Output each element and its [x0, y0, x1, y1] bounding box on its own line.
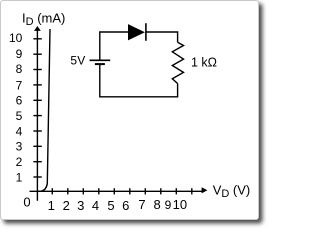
- svg-text:4: 4: [92, 198, 99, 213]
- battery V1 positive long plate: [90, 59, 111, 61]
- svg-text:5: 5: [107, 198, 114, 213]
- diode D1 cathode bar: [145, 23, 147, 41]
- y tick 4: [33, 130, 41, 132]
- svg-text:1: 1: [48, 198, 55, 213]
- y-axis arrowhead: [34, 26, 41, 31]
- svg-text:1: 1: [16, 170, 23, 184]
- battery V1 negative short plate: [95, 63, 105, 65]
- y tick 7: [33, 84, 41, 86]
- x tick 1: [51, 188, 53, 194]
- svg-text:ID (mA): ID (mA): [22, 10, 65, 28]
- y tick 10: [33, 38, 41, 40]
- diode I-V curve: [38, 29, 50, 191]
- y tick 2: [33, 161, 41, 163]
- wire: bottom from battery to resistor: [100, 65, 178, 97]
- y tick 5: [33, 115, 41, 117]
- x tick 9: [175, 188, 177, 194]
- svg-text:5: 5: [16, 109, 23, 123]
- svg-text:3: 3: [77, 198, 84, 213]
- resistor R1 zigzag: [172, 42, 183, 83]
- diode D1 triangle: [128, 24, 145, 40]
- svg-text:4: 4: [16, 124, 23, 138]
- y tick 9: [33, 53, 41, 55]
- svg-text:1 kΩ: 1 kΩ: [191, 55, 217, 69]
- x tick 3: [82, 188, 84, 194]
- x tick 10: [191, 188, 193, 194]
- wire: diode to top-right corner down to resistor: [147, 32, 178, 42]
- wire: top-left from battery to diode: [100, 32, 128, 60]
- svg-text:V: V: [77, 53, 85, 67]
- y tick 3: [33, 145, 41, 147]
- svg-text:2: 2: [16, 155, 23, 169]
- svg-text:6: 6: [122, 198, 129, 213]
- y tick 8: [33, 69, 41, 71]
- x tick 6: [129, 188, 131, 194]
- x tick 2: [67, 188, 69, 194]
- svg-text:3: 3: [16, 140, 23, 154]
- svg-text:0: 0: [23, 195, 30, 210]
- svg-text:9: 9: [165, 198, 172, 212]
- svg-text:10: 10: [173, 197, 187, 212]
- y tick 1: [33, 176, 41, 178]
- svg-text:8: 8: [153, 197, 160, 212]
- svg-text:7: 7: [16, 78, 23, 92]
- svg-text:6: 6: [16, 94, 23, 108]
- svg-text:2: 2: [63, 198, 70, 213]
- x tick 7: [144, 188, 146, 194]
- x-axis: [30, 190, 203, 192]
- x tick 5: [113, 188, 115, 194]
- svg-text:VD (V): VD (V): [213, 182, 251, 199]
- svg-text:8: 8: [16, 62, 23, 76]
- x tick 8: [160, 188, 162, 194]
- y-axis: [36, 28, 38, 201]
- svg-text:10: 10: [9, 31, 23, 45]
- svg-text:7: 7: [138, 197, 145, 212]
- svg-text:9: 9: [16, 47, 23, 61]
- x tick 4: [98, 188, 100, 194]
- x-axis arrowhead: [202, 187, 208, 193]
- y tick 6: [33, 99, 41, 101]
